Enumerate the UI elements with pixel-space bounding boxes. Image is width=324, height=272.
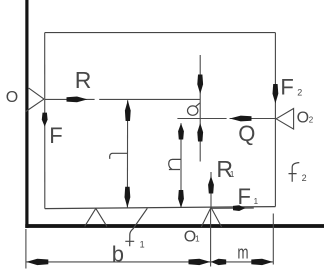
force arrow down onto sigma point — [197, 75, 203, 95]
force arrow R1 (up at O1) — [210, 172, 212, 208]
dimension line n (vertical) — [180, 123, 182, 208]
extension line right (below body right side) — [272, 214, 274, 265]
dim arrow b left — [26, 259, 48, 265]
svg-text:1: 1 — [230, 170, 235, 179]
svg-text:1: 1 — [254, 197, 259, 206]
force arrow F (down, at O) — [42, 113, 48, 127]
force arrow up below sigma point — [197, 123, 203, 142]
svg-text:b: b — [112, 242, 124, 267]
label n (rotated) — [169, 159, 181, 169]
pivot triangle at O (left wall) — [26, 88, 44, 111]
wire Q line — [177, 118, 275, 120]
pivot triangle at O2 (right) — [276, 109, 294, 130]
extension line left (below wall) — [25, 229, 27, 269]
dimension line l (vertical) — [126, 100, 128, 208]
svg-text:1: 1 — [195, 235, 200, 244]
body rectangle left edge — [44, 33, 46, 209]
dimension line b — [26, 261, 210, 263]
svg-text:R: R — [75, 67, 92, 93]
floor (thick horizontal line) — [25, 224, 324, 228]
wire R line — [45, 98, 201, 100]
dim arrow n top — [178, 123, 184, 139]
svg-text:2: 2 — [297, 88, 302, 98]
svg-text:m: m — [237, 243, 248, 263]
force arrow F2 (down, on right edge) — [273, 84, 279, 104]
support triangle at O1 — [201, 207, 221, 227]
extension line at O1 — [210, 208, 212, 267]
svg-text:O: O — [297, 110, 309, 127]
label f2 — [289, 163, 300, 182]
support triangle (bottom left) — [85, 208, 107, 226]
dim arrow l bottom — [125, 187, 131, 208]
force arrow Q (left) — [230, 116, 252, 122]
body rectangle bottom edge — [45, 207, 276, 209]
dim arrow m left — [211, 259, 226, 265]
dim arrow b right — [189, 259, 211, 265]
node sigma label — [188, 103, 200, 115]
svg-text:2: 2 — [302, 173, 307, 183]
force arrow F1 (right along bottom) — [211, 207, 254, 209]
svg-text:Q: Q — [238, 121, 255, 146]
dim arrow m right — [251, 259, 273, 265]
svg-text:F: F — [280, 74, 293, 99]
body rectangle top edge — [45, 32, 276, 34]
dimension line m — [211, 261, 273, 263]
svg-text:F: F — [49, 123, 62, 148]
dim arrow n bottom — [178, 190, 184, 208]
dim arrow l top — [125, 100, 131, 121]
svg-text:F: F — [238, 184, 251, 209]
label f1 with leader line — [125, 208, 147, 246]
svg-text:O: O — [6, 89, 18, 106]
svg-text:1: 1 — [140, 240, 145, 250]
body rectangle right edge — [274, 33, 276, 207]
wire vertical at sigma point (upper) — [199, 55, 201, 162]
label l (rotated) — [110, 153, 128, 159]
wall (thick vertical line) — [25, 0, 28, 228]
svg-text:2: 2 — [309, 116, 314, 125]
force arrow R — [67, 97, 88, 103]
